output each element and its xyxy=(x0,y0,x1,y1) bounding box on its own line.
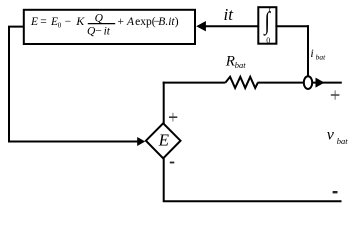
plus terminal label (gray) xyxy=(331,90,340,99)
equation block U1: E = E0 - K*Q/(Q-it) + A*exp(-B.it) xyxy=(24,10,195,44)
svg-text:E: E xyxy=(158,131,170,150)
wire resistor to node xyxy=(258,82,305,84)
svg-text:−: − xyxy=(95,26,102,38)
svg-text:v: v xyxy=(327,126,335,143)
arrowhead into source xyxy=(137,137,145,146)
svg-text:Q: Q xyxy=(95,12,104,24)
minus sign of source xyxy=(170,162,175,164)
svg-text:): ) xyxy=(175,16,179,28)
wire right of node xyxy=(313,82,342,84)
svg-text:bat: bat xyxy=(337,136,349,146)
svg-text:K: K xyxy=(75,14,85,28)
wire corner down to diamond top xyxy=(163,82,165,125)
svg-text:it: it xyxy=(104,26,111,38)
svg-text:A: A xyxy=(126,16,135,28)
svg-text:E: E xyxy=(30,16,38,28)
wire down to node xyxy=(307,25,309,76)
svg-text:0: 0 xyxy=(58,22,62,30)
wire from integrator to corner xyxy=(275,25,309,27)
plus sign of source xyxy=(169,113,177,122)
controlled voltage source E (diamond) xyxy=(146,123,181,158)
arrowhead into equation block xyxy=(196,21,206,31)
svg-text:i: i xyxy=(310,46,313,60)
svg-text:B.it: B.it xyxy=(158,16,175,28)
wire from integrator to equation block xyxy=(204,25,259,27)
svg-text:bat: bat xyxy=(235,60,247,70)
svg-text:R: R xyxy=(225,53,235,69)
wire source bottom to minus rail xyxy=(164,158,342,202)
control wire from equation block to source xyxy=(9,27,138,142)
wire corner to resistor xyxy=(163,82,226,84)
resistor R_bat xyxy=(225,77,258,88)
svg-text:it: it xyxy=(224,5,235,24)
svg-text:bat: bat xyxy=(316,53,327,62)
node terminal ellipse xyxy=(304,76,312,89)
arrowhead current direction xyxy=(316,78,325,88)
minus terminal label xyxy=(333,191,338,193)
integrator block U2 xyxy=(258,5,276,45)
svg-text:0: 0 xyxy=(266,36,270,45)
svg-text:+: + xyxy=(117,16,124,28)
svg-text:−: − xyxy=(65,16,72,28)
svg-text:=: = xyxy=(40,16,47,28)
